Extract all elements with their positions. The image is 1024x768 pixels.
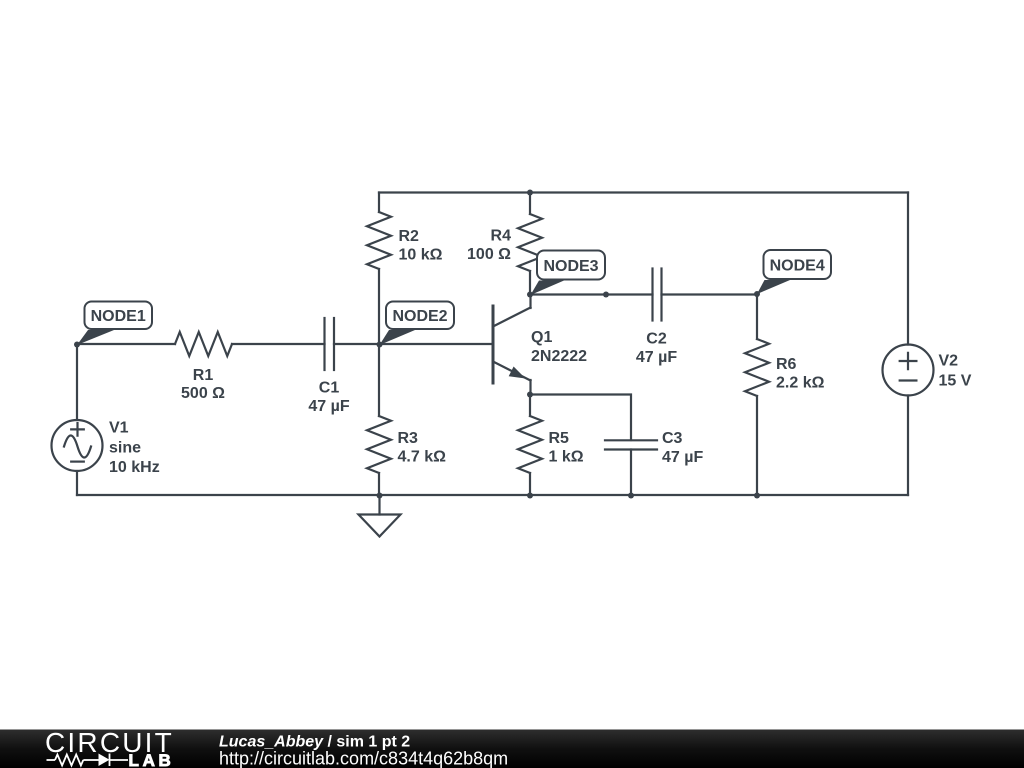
svg-text:47 µF: 47 µF <box>308 398 349 415</box>
svg-text:1 kΩ: 1 kΩ <box>549 449 584 466</box>
svg-text:2N2222: 2N2222 <box>531 348 587 365</box>
svg-text:sine: sine <box>109 440 141 457</box>
svg-text:R6: R6 <box>776 356 797 373</box>
svg-text:R2: R2 <box>399 228 420 245</box>
svg-text:47 µF: 47 µF <box>636 349 677 366</box>
svg-text:http://circuitlab.com/c834t4q6: http://circuitlab.com/c834t4q62b8qm <box>219 749 508 768</box>
svg-text:R3: R3 <box>398 430 419 447</box>
svg-text:LAB: LAB <box>129 751 175 768</box>
svg-text:15 V: 15 V <box>939 373 972 390</box>
svg-text:100 Ω: 100 Ω <box>467 246 511 263</box>
svg-text:R4: R4 <box>491 228 512 245</box>
svg-text:C1: C1 <box>319 380 340 397</box>
svg-text:R1: R1 <box>193 367 214 384</box>
svg-text:4.7 kΩ: 4.7 kΩ <box>398 449 447 466</box>
svg-text:R5: R5 <box>549 430 570 447</box>
svg-text:10 kΩ: 10 kΩ <box>399 247 443 264</box>
svg-text:47 µF: 47 µF <box>662 449 703 466</box>
svg-text:V1: V1 <box>109 420 129 437</box>
svg-text:Q1: Q1 <box>531 329 552 346</box>
svg-text:NODE4: NODE4 <box>770 258 825 275</box>
svg-text:10 kHz: 10 kHz <box>109 459 160 476</box>
svg-text:V2: V2 <box>939 353 959 370</box>
svg-text:2.2 kΩ: 2.2 kΩ <box>776 375 825 392</box>
svg-text:C2: C2 <box>646 331 667 348</box>
svg-text:500 Ω: 500 Ω <box>181 385 225 402</box>
svg-text:NODE3: NODE3 <box>543 258 598 275</box>
svg-text:NODE1: NODE1 <box>91 308 146 325</box>
svg-text:NODE2: NODE2 <box>392 308 447 325</box>
svg-text:C3: C3 <box>662 430 683 447</box>
